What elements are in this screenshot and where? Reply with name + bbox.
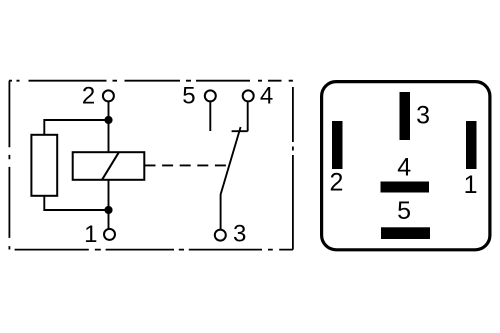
wire: terminal 5 stub xyxy=(209,102,211,131)
svg-text:4: 4 xyxy=(397,154,411,182)
terminal 1 circle xyxy=(104,229,115,240)
svg-text:5: 5 xyxy=(397,197,411,225)
terminal 3 circle xyxy=(215,230,226,241)
connector pin 3 blade xyxy=(400,92,411,140)
svg-text:2: 2 xyxy=(82,83,95,110)
connector pin 4 blade xyxy=(381,182,430,193)
switch armature from terminal 3 xyxy=(221,127,241,230)
junction node B xyxy=(104,206,112,214)
svg-text:3: 3 xyxy=(416,102,430,130)
relay coil K1 xyxy=(73,152,145,180)
wire: node B down to terminal 1 xyxy=(108,210,110,229)
mechanical link (dashed) from coil to armature xyxy=(145,164,233,166)
svg-text:4: 4 xyxy=(260,82,273,109)
wire: terminal 4 down to contact seat xyxy=(247,102,249,131)
enclosure dash-dot border bottom xyxy=(15,249,293,251)
enclosure dash-dot border top xyxy=(9,80,293,82)
wire: terminal 2 down to node A xyxy=(108,102,110,120)
svg-text:3: 3 xyxy=(233,221,246,248)
wire: node A down to coil xyxy=(108,120,110,152)
connector pin 2 blade xyxy=(332,121,343,169)
enclosure dash-dot border right xyxy=(292,87,294,250)
terminal 5 circle xyxy=(205,90,216,101)
svg-text:1: 1 xyxy=(464,171,478,199)
connector body (rounded square) xyxy=(322,82,490,250)
terminal 2 circle xyxy=(103,90,114,101)
connector pin 5 blade xyxy=(381,227,430,239)
contact seat of terminal 4 xyxy=(232,130,248,132)
terminal 4 circle xyxy=(243,90,254,101)
svg-text:5: 5 xyxy=(182,83,195,110)
wire: resistor bottom branch to node B xyxy=(44,196,108,210)
junction node A xyxy=(104,116,112,124)
connector pin 1 blade xyxy=(466,121,477,169)
svg-text:2: 2 xyxy=(330,169,344,197)
svg-text:1: 1 xyxy=(84,221,97,248)
wire: resistor top branch to node A xyxy=(44,120,108,135)
resistor R1 (parallel resistor) xyxy=(31,135,57,196)
enclosure dash-dot border left xyxy=(8,81,10,250)
wire: coil down to node B xyxy=(108,180,110,210)
